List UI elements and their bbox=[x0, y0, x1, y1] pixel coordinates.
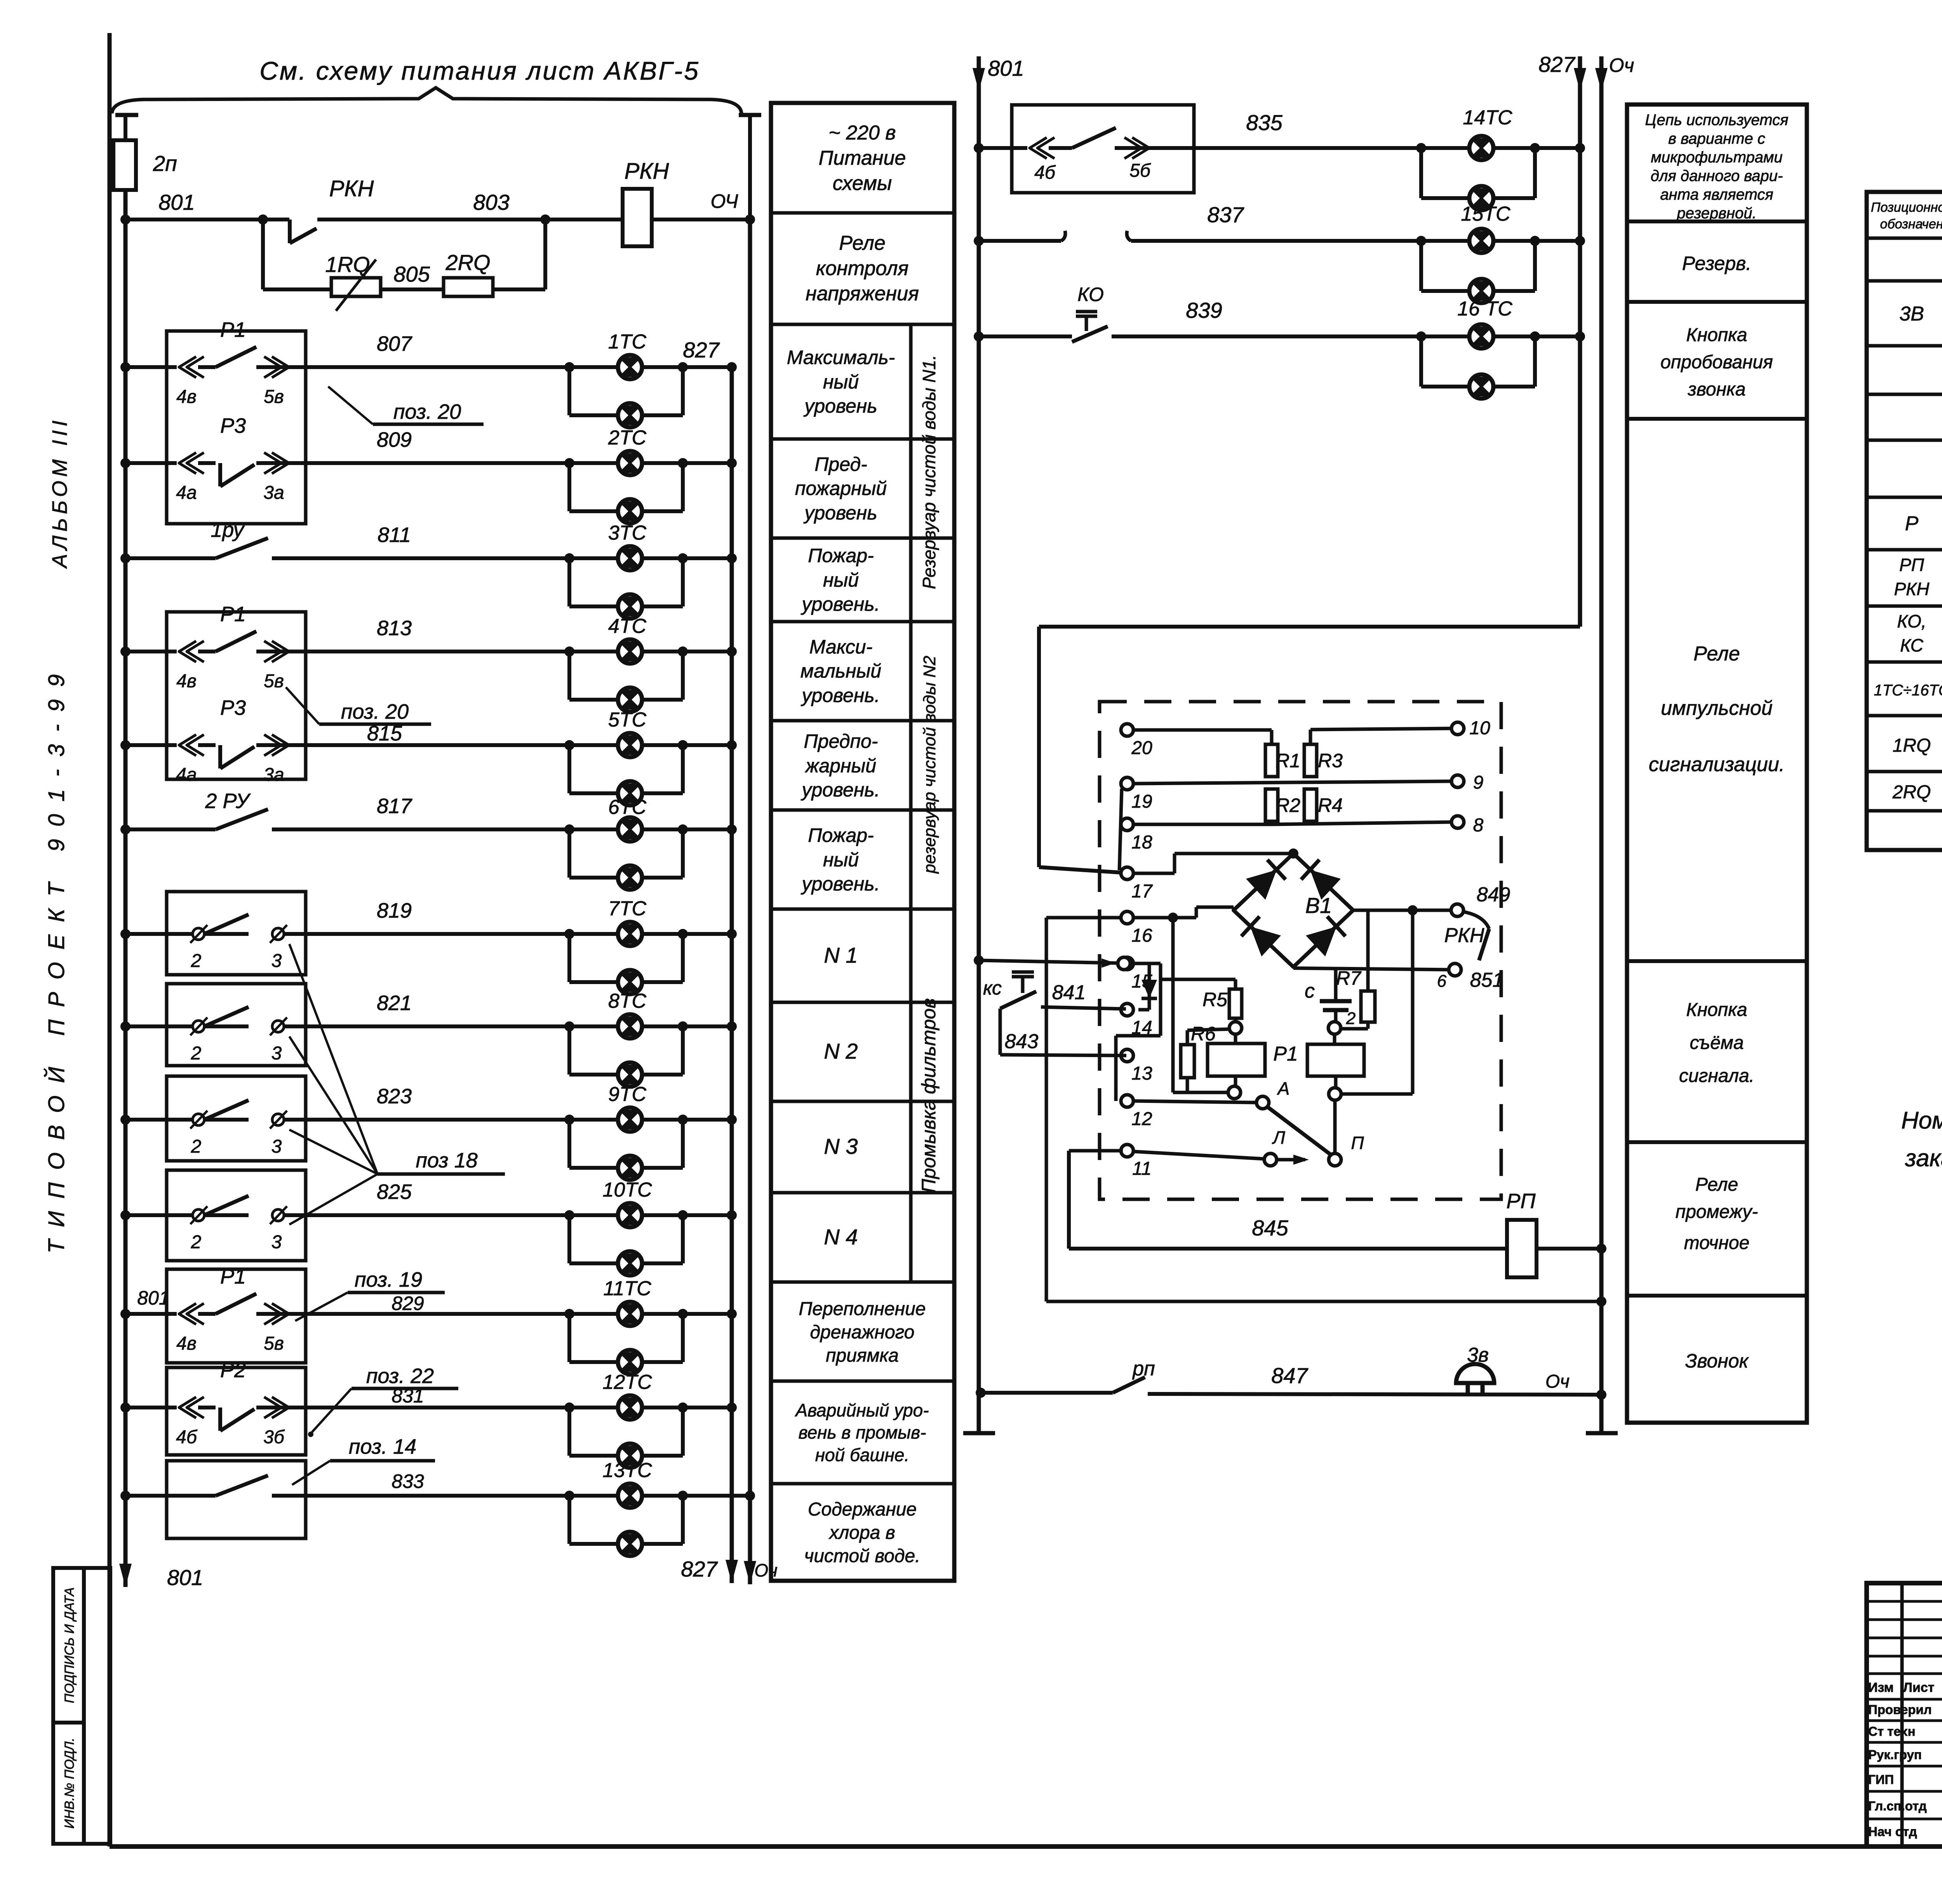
svg-text:845: 845 bbox=[1252, 1216, 1288, 1240]
lamp label 14ТС bbox=[1463, 106, 1512, 129]
svg-text:Номера позиций приборов со: Номера позиций приборов соответствуют- bbox=[1901, 1107, 1942, 1134]
wire 815 bbox=[120, 740, 737, 750]
bus 801 (middle) bbox=[963, 56, 995, 1433]
table row 1ТС-16ТС bbox=[1874, 668, 1942, 714]
leader поз 18 bbox=[289, 944, 505, 1225]
signature row: Гл.сп.отд Степаненко bbox=[1868, 1798, 1942, 1813]
svg-text:841: 841 bbox=[1052, 981, 1086, 1004]
label Р1 (829) bbox=[220, 1265, 246, 1288]
svg-text:15ТС: 15ТС bbox=[1461, 203, 1510, 225]
resistor R2 bbox=[1265, 789, 1278, 821]
svg-text:точное: точное bbox=[1684, 1233, 1750, 1253]
bus 827 (middle) bbox=[1574, 56, 1586, 627]
terminal 9 bbox=[1451, 772, 1483, 793]
svg-text:ный: ный bbox=[823, 569, 859, 591]
svg-text:мальный: мальный bbox=[800, 660, 881, 682]
contact box (835) bbox=[1012, 105, 1194, 193]
svg-text:РП: РП bbox=[1899, 555, 1925, 575]
terminal 19 bbox=[1121, 777, 1152, 812]
svg-text:R1: R1 bbox=[1276, 750, 1300, 772]
svg-text:837: 837 bbox=[1207, 202, 1244, 227]
svg-text:16 ТС: 16 ТС bbox=[1457, 298, 1512, 320]
svg-text:827: 827 bbox=[1538, 52, 1575, 77]
cell: Кнопка опробования звонка bbox=[1660, 325, 1773, 400]
terminal 851 (6) bbox=[1437, 963, 1504, 991]
svg-text:Р1: Р1 bbox=[220, 603, 246, 626]
wire number 833 bbox=[392, 1470, 424, 1492]
fuse 2п bbox=[113, 140, 136, 190]
svg-text:Содержание: Содержание bbox=[808, 1499, 917, 1520]
svg-text:КО,: КО, bbox=[1897, 611, 1926, 631]
svg-text:N 1: N 1 bbox=[824, 943, 858, 967]
lamp 15ТС (lower) + branch bbox=[1421, 241, 1535, 303]
svg-text:12: 12 bbox=[1131, 1109, 1152, 1129]
cell: Реле контроля напряжения bbox=[806, 232, 919, 305]
lamp 16ТС (upper) bbox=[1469, 324, 1493, 348]
svg-text:сигнализации.: сигнализации. bbox=[1649, 753, 1785, 776]
sidebar caption: Типовой проект 901-3-99 bbox=[44, 662, 69, 1254]
svg-text:съёма: съёма bbox=[1690, 1033, 1744, 1053]
label Оч (middle top) bbox=[1609, 54, 1634, 76]
cell: Пред-пожарный уровень bbox=[795, 453, 887, 524]
level-switch contact (823) bbox=[190, 1100, 287, 1129]
lamp label 13ТС bbox=[602, 1459, 652, 1482]
svg-text:КС: КС bbox=[1900, 635, 1924, 655]
cell: Аварийный уровень в промывной башне bbox=[794, 1400, 929, 1465]
lamp label 10ТС bbox=[602, 1179, 652, 1201]
wire 841 bbox=[1041, 1007, 1126, 1009]
bus 801 (left ladder) bbox=[119, 190, 132, 1587]
lamp label 6ТС bbox=[608, 796, 647, 819]
table row 1RQ bbox=[1893, 723, 1942, 766]
table row ЗВ bbox=[1899, 289, 1942, 334]
leader поз. 19 bbox=[295, 1268, 445, 1321]
svg-text:9: 9 bbox=[1473, 772, 1484, 793]
svg-text:3ТС: 3ТС bbox=[608, 522, 647, 544]
diode 15-14 bbox=[1130, 963, 1161, 1010]
svg-text:Ст техн: Ст техн bbox=[1868, 1724, 1916, 1739]
table row РП/РКН bbox=[1894, 555, 1942, 600]
svg-text:Предпо-: Предпо- bbox=[804, 730, 878, 752]
label 2п bbox=[153, 151, 177, 176]
lamp 15ТС (upper) bbox=[1469, 229, 1493, 253]
svg-text:РП: РП bbox=[1506, 1190, 1536, 1213]
svg-text:Питание: Питание bbox=[819, 147, 906, 169]
lamp 3ТС (upper) bbox=[618, 546, 642, 570]
capacitor С bbox=[1320, 970, 1352, 1022]
svg-text:823: 823 bbox=[377, 1085, 412, 1108]
wire number 821 bbox=[377, 991, 412, 1015]
svg-text:Оч: Оч bbox=[1609, 54, 1634, 76]
contact Р1 (829) bbox=[179, 1294, 289, 1324]
svg-text:3: 3 bbox=[271, 1232, 282, 1252]
svg-text:2: 2 bbox=[191, 1232, 202, 1252]
contact box 5 bbox=[167, 1076, 306, 1161]
svg-text:Лист: Лист bbox=[1903, 1680, 1934, 1695]
svg-text:811: 811 bbox=[378, 523, 411, 547]
svg-text:3В: 3В bbox=[1899, 303, 1924, 325]
terminal node below R5 bbox=[1229, 1018, 1242, 1034]
svg-text:R5: R5 bbox=[1202, 989, 1227, 1010]
svg-text:РКН: РКН bbox=[1444, 924, 1484, 947]
wire coil bottom to 849 node bbox=[1341, 910, 1413, 1094]
svg-text:уровень.: уровень. bbox=[800, 685, 880, 706]
contact П bbox=[1329, 1133, 1364, 1166]
label Р2 (831) bbox=[220, 1359, 246, 1382]
pin labels 4б 5б (835) bbox=[1034, 160, 1151, 183]
svg-text:851: 851 bbox=[1470, 969, 1504, 991]
note: См. схему питания лист АКВГ-5 bbox=[259, 56, 700, 85]
title block signature row lines bbox=[1867, 1601, 1942, 1819]
leader поз. 20 (box 2) bbox=[286, 687, 431, 724]
wire 833 bbox=[120, 1491, 755, 1501]
svg-text:805: 805 bbox=[393, 262, 430, 286]
lamp 1ТС (lower) + parallel branch bbox=[569, 367, 683, 427]
wire terminal 17 to bridge top bbox=[1133, 848, 1298, 873]
label 835 bbox=[1246, 110, 1282, 135]
contact Р1 (813) bbox=[179, 631, 289, 662]
note: Номера позиций приборов... bbox=[1901, 1107, 1942, 1173]
lamp 5ТС (lower) + parallel branch bbox=[569, 745, 683, 805]
wire 825 bbox=[120, 1210, 737, 1220]
svg-text:Р3: Р3 bbox=[220, 414, 246, 437]
lamp label 2ТС bbox=[608, 427, 647, 449]
label R4 bbox=[1318, 794, 1343, 816]
label 847 bbox=[1271, 1363, 1308, 1388]
svg-text:2п: 2п bbox=[153, 151, 177, 176]
svg-text:4ТС: 4ТС bbox=[608, 615, 647, 638]
svg-text:801: 801 bbox=[137, 1287, 169, 1309]
wire bus to terminal 15 bbox=[974, 955, 1118, 968]
cell: Пожарный уровень bbox=[800, 545, 880, 615]
signature row: Ст.техн Носенок bbox=[1868, 1723, 1942, 1739]
bridge rectifier B1 bbox=[1234, 854, 1353, 967]
sidebar caption: Альбом III bbox=[48, 416, 71, 569]
bus Оч (left ladder) bbox=[744, 219, 756, 1584]
contact Р2 (831) bbox=[179, 1397, 289, 1431]
wire bridge bottom to terminal 851 bbox=[1293, 967, 1449, 970]
svg-text:жарный: жарный bbox=[805, 755, 876, 777]
contact поз.14 (833) bbox=[216, 1475, 268, 1496]
svg-text:2: 2 bbox=[191, 1043, 202, 1064]
pin labels 2 3 (819) bbox=[191, 951, 282, 971]
cell: Пожарный уровень (N2) bbox=[800, 824, 880, 895]
sidebar label: Подпись и дата bbox=[62, 1587, 77, 1703]
svg-text:3а: 3а bbox=[263, 765, 284, 785]
svg-text:поз. 14: поз. 14 bbox=[349, 1435, 416, 1458]
svg-text:Пред-: Пред- bbox=[814, 453, 867, 475]
cell: Звонок bbox=[1685, 1350, 1749, 1372]
svg-text:2: 2 bbox=[191, 951, 202, 971]
pushbutton КС bbox=[1000, 972, 1036, 1009]
svg-text:Реле: Реле bbox=[1693, 643, 1740, 665]
svg-text:821: 821 bbox=[377, 991, 412, 1015]
terminal 10 bbox=[1451, 718, 1490, 739]
pin labels 4а 3а (815) bbox=[176, 765, 284, 785]
svg-text:849: 849 bbox=[1477, 883, 1510, 906]
lamp 10ТС (lower) + parallel branch bbox=[569, 1215, 683, 1275]
lamp label 3ТС bbox=[608, 522, 647, 544]
bus 827 (left ladder) bbox=[726, 367, 738, 1583]
svg-text:поз. 19: поз. 19 bbox=[355, 1268, 422, 1291]
terminal 13 bbox=[1121, 1049, 1152, 1084]
svg-text:819: 819 bbox=[377, 899, 412, 922]
svg-text:5в: 5в bbox=[264, 387, 284, 407]
svg-text:поз. 22: поз. 22 bbox=[366, 1364, 434, 1388]
label В1 bbox=[1305, 893, 1332, 918]
label R5 bbox=[1202, 989, 1227, 1010]
svg-text:Нач отд: Нач отд bbox=[1868, 1824, 1917, 1839]
cell: Резерв bbox=[1682, 253, 1751, 274]
pushbutton КО bbox=[1072, 312, 1108, 342]
svg-text:чистой воде.: чистой воде. bbox=[804, 1546, 921, 1566]
svg-text:5в: 5в bbox=[264, 671, 284, 692]
table row 2RQ bbox=[1892, 771, 1942, 810]
svg-text:РКН: РКН bbox=[1894, 579, 1930, 599]
svg-text:В1: В1 bbox=[1305, 893, 1332, 918]
svg-text:3: 3 bbox=[271, 1043, 282, 1064]
lamp 2ТС (lower) + parallel branch bbox=[569, 463, 683, 523]
svg-text:3: 3 bbox=[271, 951, 282, 971]
svg-text:промежу-: промежу- bbox=[1676, 1202, 1758, 1222]
wire 845 bbox=[1069, 1151, 1507, 1249]
svg-text:1RQ: 1RQ bbox=[325, 252, 370, 277]
svg-text:801: 801 bbox=[158, 190, 195, 214]
wire terminal 12 up to 15 node bbox=[1116, 1036, 1161, 1101]
terminal 18 bbox=[1121, 818, 1152, 853]
svg-text:обозначен: обозначен bbox=[1880, 217, 1942, 232]
svg-text:АЛЬБОМ III: АЛЬБОМ III bbox=[48, 416, 71, 569]
wire 823 bbox=[120, 1115, 737, 1125]
contact Л bbox=[1264, 1127, 1285, 1166]
svg-text:Кнопка: Кнопка bbox=[1686, 325, 1747, 345]
wire R3 top to terminal 10 bbox=[1310, 728, 1451, 744]
svg-text:N 2: N 2 bbox=[824, 1039, 858, 1063]
wire 831 bbox=[120, 1402, 737, 1413]
label R1 bbox=[1276, 750, 1300, 772]
lamp label 16ТС bbox=[1457, 298, 1512, 320]
svg-text:4в: 4в bbox=[176, 1333, 197, 1354]
wire 803 bbox=[317, 214, 623, 225]
svg-text:РКН: РКН bbox=[625, 159, 669, 184]
svg-text:Гл.сп.отд: Гл.сп.отд bbox=[1868, 1799, 1927, 1813]
label 841 bbox=[1052, 981, 1086, 1004]
lamp 4ТС (lower) + parallel branch bbox=[569, 652, 683, 712]
signature row: Рук.груп Гусева bbox=[1868, 1746, 1942, 1762]
wire number 809 bbox=[377, 428, 412, 451]
label КС bbox=[983, 977, 1002, 999]
wire bridge right to terminal 849 bbox=[1353, 905, 1451, 915]
svg-text:4в: 4в bbox=[176, 671, 197, 692]
table header: Позиционное обознач bbox=[1871, 200, 1942, 232]
svg-text:Пожар-: Пожар- bbox=[808, 545, 874, 566]
svg-text:9ТС: 9ТС bbox=[608, 1083, 647, 1106]
right description column row lines bbox=[1627, 221, 1807, 1296]
cell: Реле промежуточное bbox=[1676, 1174, 1758, 1253]
label Р3 (815) bbox=[220, 696, 246, 719]
svg-text:5ТС: 5ТС bbox=[608, 709, 647, 731]
svg-text:19: 19 bbox=[1131, 791, 1152, 812]
resistor R6 bbox=[1181, 1045, 1194, 1078]
lamp label 15ТС bbox=[1461, 203, 1510, 225]
wire to Оч bbox=[652, 214, 755, 225]
wire terminal 18 (R2/R4 bottom) to terminal 8 bbox=[1133, 821, 1451, 824]
wire number 831 bbox=[392, 1385, 424, 1407]
wire from bus 827 to terminal 17 bbox=[1039, 627, 1580, 873]
lamp label 7ТС bbox=[608, 897, 647, 920]
svg-text:807: 807 bbox=[377, 332, 412, 355]
leader поз. 14 bbox=[292, 1435, 435, 1485]
label R7 bbox=[1336, 967, 1362, 989]
lamp label 1ТС bbox=[608, 331, 647, 353]
svg-text:Оч: Оч bbox=[754, 1560, 778, 1580]
svg-text:1ру: 1ру bbox=[211, 518, 245, 542]
svg-text:Р1: Р1 bbox=[220, 318, 246, 341]
svg-text:Проверил: Проверил bbox=[1868, 1702, 1932, 1717]
wire number 819 bbox=[377, 899, 412, 922]
wire terminal 11 to Л bbox=[1133, 1151, 1264, 1159]
svg-text:уровень.: уровень. bbox=[800, 873, 880, 895]
svg-text:контроля: контроля bbox=[816, 257, 909, 280]
level-switch contact (821) bbox=[190, 1007, 287, 1035]
pin labels 2 3 (823) bbox=[191, 1136, 282, 1157]
svg-text:835: 835 bbox=[1246, 110, 1282, 135]
terminal T of bus 801 bbox=[115, 115, 138, 140]
svg-text:вень в промыв-: вень в промыв- bbox=[799, 1422, 926, 1442]
wire 809 bbox=[120, 458, 737, 468]
wire 843 bbox=[1000, 1009, 1126, 1056]
contact box 9 bbox=[167, 1461, 306, 1538]
cell: Максимальный уровень (N2) bbox=[800, 636, 881, 706]
svg-text:в варианте с: в варианте с bbox=[1668, 130, 1765, 147]
svg-text:4б: 4б bbox=[1034, 162, 1056, 183]
svg-text:18: 18 bbox=[1131, 832, 1152, 853]
svg-text:4б: 4б bbox=[176, 1427, 198, 1448]
svg-text:Макси-: Макси- bbox=[809, 636, 873, 658]
wire terminal 16 to bridge left bbox=[1133, 907, 1234, 918]
label КО bbox=[1077, 284, 1104, 305]
label 801 at rung 829 bbox=[137, 1287, 169, 1309]
svg-text:~ 220 в: ~ 220 в bbox=[828, 122, 896, 144]
label R6 bbox=[1191, 1023, 1216, 1045]
contact Р1 (807) bbox=[179, 347, 289, 378]
cell: N3 bbox=[824, 1134, 858, 1158]
svg-text:4в: 4в bbox=[176, 387, 197, 407]
terminal 11 bbox=[1121, 1144, 1152, 1179]
svg-text:829: 829 bbox=[392, 1293, 424, 1314]
pin labels 4а 3а (809) bbox=[176, 483, 284, 503]
pin labels 2 3 (825) bbox=[191, 1232, 282, 1252]
contact box 7 bbox=[167, 1269, 306, 1363]
svg-text:ТИПОВОЙ ПРОЕКТ 901-3-99: ТИПОВОЙ ПРОЕКТ 901-3-99 bbox=[44, 662, 69, 1254]
R6 top lead bbox=[1187, 1029, 1229, 1045]
lamp 13ТС (lower) + parallel branch bbox=[569, 1496, 683, 1556]
svg-text:4а: 4а bbox=[176, 765, 197, 785]
svg-text:пожарный: пожарный bbox=[795, 477, 887, 499]
wire terminal 16 left and down to Оч bus bbox=[1046, 918, 1606, 1306]
lamp 11ТС (upper) bbox=[618, 1302, 642, 1326]
wire 817 bbox=[120, 824, 737, 834]
svg-text:Л: Л bbox=[1272, 1127, 1285, 1148]
resistor 1RQ (adjustable) bbox=[331, 260, 381, 311]
svg-text:РКН: РКН bbox=[329, 176, 374, 201]
svg-text:2: 2 bbox=[191, 1136, 202, 1157]
wire number 817 bbox=[377, 794, 412, 818]
wire number 811 bbox=[378, 523, 411, 547]
contact 1ру (811) bbox=[216, 538, 268, 558]
label 803 bbox=[473, 190, 509, 214]
label С bbox=[1305, 980, 1315, 1002]
svg-text:Изм: Изм bbox=[1868, 1680, 1894, 1695]
svg-text:839: 839 bbox=[1186, 298, 1222, 322]
svg-text:13ТС: 13ТС bbox=[602, 1459, 652, 1482]
right description column frame bbox=[1627, 105, 1807, 1423]
svg-text:3б: 3б bbox=[263, 1427, 285, 1448]
svg-text:звонка: звонка bbox=[1688, 379, 1746, 400]
terminal T of bus Оч bbox=[739, 115, 761, 219]
svg-text:хлора в: хлора в bbox=[828, 1523, 895, 1543]
branch R7 top bbox=[1366, 910, 1370, 991]
svg-text:R7: R7 bbox=[1336, 967, 1362, 989]
svg-text:поз 18: поз 18 bbox=[416, 1149, 477, 1172]
svg-text:1RQ: 1RQ bbox=[1893, 735, 1931, 756]
svg-text:Аварийный уро-: Аварийный уро- bbox=[794, 1400, 929, 1420]
rotated caption: Промывка фильтров bbox=[918, 998, 940, 1193]
title block header row: Изм Лист N докум Подпись Дата bbox=[1868, 1679, 1942, 1695]
cell: Цепь используется в варианте... bbox=[1645, 111, 1789, 222]
svg-text:833: 833 bbox=[392, 1470, 424, 1492]
lamp label 8ТС bbox=[608, 990, 647, 1012]
resistor 2RQ bbox=[444, 278, 493, 296]
svg-text:817: 817 bbox=[377, 794, 412, 818]
svg-text:12ТС: 12ТС bbox=[602, 1371, 652, 1394]
wire 829 bbox=[120, 1309, 737, 1319]
svg-text:1ТС: 1ТС bbox=[608, 331, 647, 353]
svg-text:843: 843 bbox=[1005, 1030, 1039, 1053]
left description column frame bbox=[771, 103, 954, 1581]
svg-text:8ТС: 8ТС bbox=[608, 990, 647, 1012]
contact А bbox=[1256, 1078, 1289, 1109]
label 801 bbox=[158, 190, 195, 214]
contact box 2 bbox=[167, 612, 306, 779]
svg-text:Рук.груп: Рук.груп bbox=[1868, 1747, 1922, 1762]
terminal 20 bbox=[1121, 724, 1152, 758]
lamp 9ТС (upper) bbox=[618, 1108, 642, 1132]
svg-text:Р3: Р3 bbox=[220, 696, 246, 719]
svg-text:опробования: опробования bbox=[1660, 352, 1773, 373]
terminal 15 circle bbox=[1118, 957, 1130, 970]
label 1ру bbox=[211, 518, 245, 542]
contact Р3 (815) bbox=[179, 735, 289, 768]
svg-text:приямка: приямка bbox=[826, 1345, 899, 1366]
svg-text:17: 17 bbox=[1131, 881, 1153, 902]
node below coil Р1 bbox=[1228, 1086, 1241, 1099]
svg-text:825: 825 bbox=[377, 1180, 412, 1204]
cell: Переполнение дренажного приямка bbox=[799, 1299, 926, 1366]
svg-text:847: 847 bbox=[1271, 1363, 1308, 1388]
lamp 12ТС (lower) + parallel branch bbox=[569, 1408, 683, 1468]
arrow after Л bbox=[1277, 1155, 1309, 1165]
svg-text:N 3: N 3 bbox=[824, 1134, 858, 1158]
svg-text:5б: 5б bbox=[1129, 160, 1151, 181]
contact РКН (849-851) bbox=[1463, 912, 1489, 960]
resistor R1 bbox=[1265, 744, 1278, 777]
svg-text:2 РУ: 2 РУ bbox=[205, 789, 251, 813]
svg-text:801: 801 bbox=[988, 56, 1024, 80]
label РКН (contact 849) bbox=[1444, 924, 1484, 947]
svg-text:напряжения: напряжения bbox=[806, 282, 919, 305]
cell: N1 bbox=[824, 943, 858, 967]
